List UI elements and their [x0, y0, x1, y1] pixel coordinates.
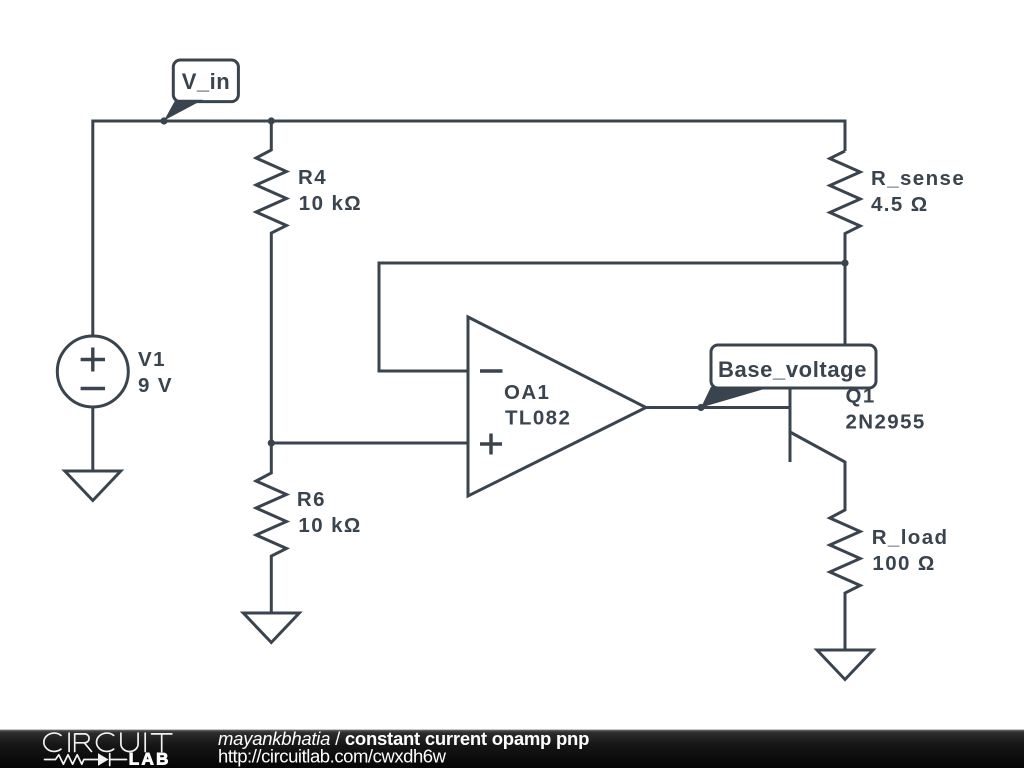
svg-text:2N2955: 2N2955 [846, 411, 926, 434]
svg-text:4.5 Ω: 4.5 Ω [871, 193, 929, 216]
svg-text:10 kΩ: 10 kΩ [299, 192, 362, 215]
svg-text:R6: R6 [297, 488, 326, 511]
svg-text:V1: V1 [138, 348, 166, 371]
svg-text:10 kΩ: 10 kΩ [298, 514, 361, 537]
svg-text:TL082: TL082 [505, 407, 571, 430]
svg-text:100 Ω: 100 Ω [872, 552, 935, 575]
svg-text:R_sense: R_sense [871, 167, 965, 190]
svg-text:LAB: LAB [129, 750, 171, 768]
svg-text:V_in: V_in [182, 69, 230, 94]
svg-text:R4: R4 [298, 166, 327, 189]
svg-text:http://circuitlab.com/cwxdh6w: http://circuitlab.com/cwxdh6w [218, 746, 447, 767]
svg-text:Base_voltage: Base_voltage [718, 357, 867, 382]
svg-text:9 V: 9 V [138, 374, 173, 397]
svg-text:OA1: OA1 [504, 381, 550, 404]
svg-text:R_load: R_load [872, 526, 949, 549]
